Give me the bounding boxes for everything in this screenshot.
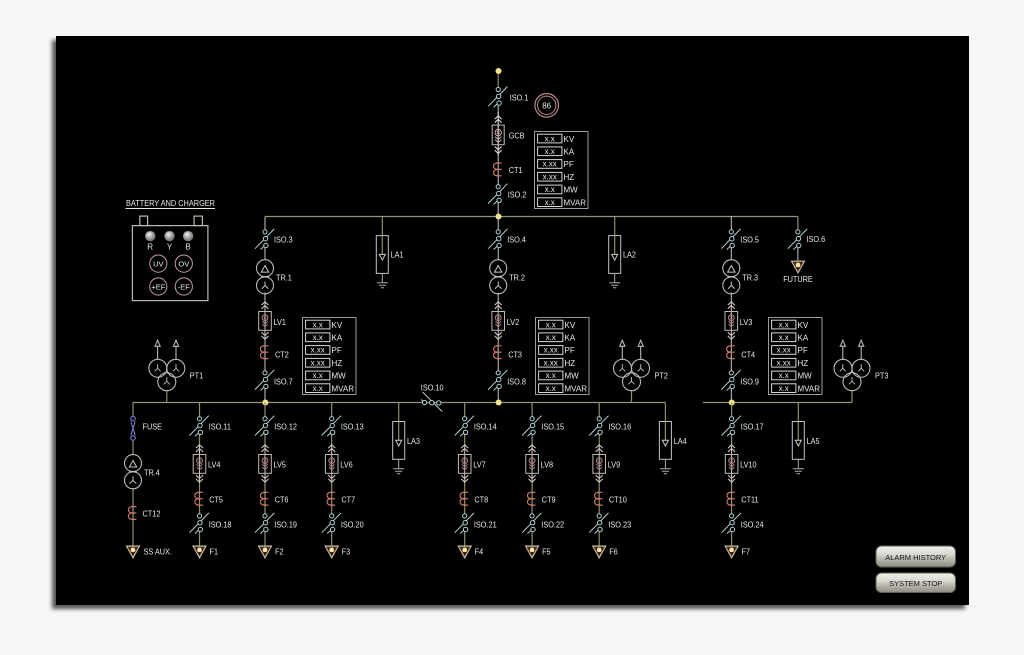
breaker GCB bbox=[492, 112, 504, 156]
feeder F1 bbox=[193, 546, 206, 558]
svg-text:CT4: CT4 bbox=[741, 350, 755, 360]
wire lower bus right segment bbox=[703, 402, 852, 404]
svg-text:LV6: LV6 bbox=[340, 460, 353, 470]
svg-text:ISO.20: ISO.20 bbox=[341, 519, 364, 529]
breaker LV4 bbox=[193, 445, 206, 483]
isolator ISO.9 bbox=[721, 370, 740, 391]
transformer TR.3 bbox=[723, 260, 740, 294]
svg-text:LA2: LA2 bbox=[623, 250, 636, 260]
svg-text:ISO.21: ISO.21 bbox=[474, 519, 497, 529]
feeder FUTURE bbox=[792, 261, 805, 273]
svg-text:LV8: LV8 bbox=[541, 460, 554, 470]
isolator ISO.10 bbox=[421, 392, 442, 412]
svg-text:F2: F2 bbox=[275, 547, 284, 557]
svg-text:ISO.17: ISO.17 bbox=[741, 422, 764, 432]
breaker LV3 bbox=[725, 302, 738, 340]
CT CT11 bbox=[727, 492, 735, 505]
feeder F7 bbox=[725, 546, 738, 558]
svg-text:ISO.16: ISO.16 bbox=[608, 422, 631, 432]
svg-text:LA3: LA3 bbox=[407, 436, 420, 446]
node ISO.8 bus junction bbox=[496, 400, 502, 406]
svg-text:LA5: LA5 bbox=[807, 436, 820, 446]
svg-text:+EF: +EF bbox=[151, 282, 165, 291]
svg-text:ISO.24: ISO.24 bbox=[741, 519, 764, 529]
feeder F5 bbox=[526, 546, 539, 558]
svg-text:LV2: LV2 bbox=[507, 317, 520, 327]
node ISO.9 bus junction bbox=[729, 400, 735, 406]
wire PT2 drop bbox=[631, 390, 633, 403]
meter panel TR.2 bbox=[536, 318, 590, 395]
isolator ISO.24 bbox=[722, 513, 741, 534]
svg-text:CT2: CT2 bbox=[275, 350, 289, 360]
svg-text:ISO.7: ISO.7 bbox=[274, 377, 293, 387]
svg-text:ISO.10: ISO.10 bbox=[421, 383, 444, 393]
CT CT5 bbox=[195, 492, 203, 505]
svg-text:R: R bbox=[147, 243, 153, 252]
isolator ISO.13 bbox=[322, 416, 341, 437]
svg-text:ISO.12: ISO.12 bbox=[274, 422, 297, 432]
transformer TR.2 bbox=[490, 260, 507, 294]
svg-text:ISO.3: ISO.3 bbox=[274, 235, 293, 245]
svg-text:FUTURE: FUTURE bbox=[783, 274, 813, 284]
svg-text:F4: F4 bbox=[475, 547, 484, 557]
wire ISO.3 column bbox=[264, 217, 266, 231]
svg-text:CT3: CT3 bbox=[508, 350, 522, 360]
svg-text:F6: F6 bbox=[609, 547, 618, 557]
svg-text:PT3: PT3 bbox=[875, 371, 889, 381]
wire PT3 drop bbox=[851, 390, 853, 403]
wire F7 column bbox=[731, 403, 733, 418]
svg-text:CT7: CT7 bbox=[341, 495, 355, 505]
wire F4 column bbox=[464, 403, 466, 418]
svg-text:Y: Y bbox=[167, 243, 173, 252]
isolator ISO.8 bbox=[488, 370, 507, 391]
breaker LV10 bbox=[725, 445, 738, 483]
svg-text:FUSE: FUSE bbox=[143, 422, 163, 432]
svg-text:ISO.8: ISO.8 bbox=[507, 377, 526, 387]
CT CT3 bbox=[494, 346, 502, 359]
PT PT3 bbox=[834, 340, 870, 390]
svg-text:LV1: LV1 bbox=[274, 317, 287, 327]
isolator ISO.14 bbox=[455, 416, 474, 437]
svg-text:GCB: GCB bbox=[509, 131, 525, 141]
isolator ISO.16 bbox=[589, 416, 608, 437]
svg-text:F7: F7 bbox=[742, 547, 751, 557]
svg-text:UV: UV bbox=[153, 259, 163, 268]
svg-text:CT6: CT6 bbox=[275, 495, 289, 505]
wire station aux column bbox=[132, 403, 134, 417]
breaker LV6 bbox=[325, 445, 338, 483]
svg-text:CT5: CT5 bbox=[209, 495, 223, 505]
svg-text:ISO.2: ISO.2 bbox=[508, 190, 527, 200]
transformer TR.4 bbox=[125, 455, 142, 489]
svg-text:CT12: CT12 bbox=[143, 509, 161, 519]
feeder F2 bbox=[259, 546, 272, 558]
wire lower bus left segment bbox=[133, 402, 666, 404]
CT CT1 bbox=[494, 163, 502, 176]
feeder SS AUX bbox=[127, 546, 140, 558]
isolator ISO.4 bbox=[488, 229, 507, 250]
svg-text:F1: F1 bbox=[210, 547, 219, 557]
breaker LV7 bbox=[458, 445, 471, 483]
svg-text:LV9: LV9 bbox=[608, 460, 621, 470]
wire F5 column bbox=[531, 403, 533, 418]
isolator ISO.17 bbox=[722, 416, 741, 437]
CT CT12 bbox=[128, 507, 136, 520]
wire upper bus bbox=[265, 216, 798, 218]
meter panel TR.3 bbox=[769, 318, 823, 395]
node incomer-bus junction bbox=[496, 214, 502, 220]
svg-text:F3: F3 bbox=[342, 547, 351, 557]
lightning arrester LA1 bbox=[376, 236, 388, 288]
CT CT10 bbox=[595, 492, 603, 505]
CT CT7 bbox=[327, 492, 335, 505]
isolator ISO.22 bbox=[522, 513, 541, 534]
fuse FUSE bbox=[131, 416, 136, 440]
relay 86 bbox=[535, 94, 559, 118]
svg-text:LV4: LV4 bbox=[208, 460, 221, 470]
svg-text:ISO.4: ISO.4 bbox=[507, 235, 526, 245]
isolator ISO.3 bbox=[255, 229, 274, 250]
isolator ISO.6 bbox=[788, 229, 807, 250]
lightning arrester LA2 bbox=[609, 236, 621, 288]
PT PT2 bbox=[614, 340, 650, 390]
svg-text:86: 86 bbox=[542, 101, 551, 110]
lightning arrester LA3 bbox=[393, 422, 405, 474]
isolator ISO.19 bbox=[255, 513, 274, 534]
lightning arrester LA5 bbox=[792, 422, 804, 474]
feeder F6 bbox=[593, 546, 606, 558]
wire ISO.5 column bbox=[730, 217, 732, 231]
button ALARM HISTORY bbox=[876, 546, 956, 567]
wire F2 column bbox=[264, 403, 266, 418]
svg-text:B: B bbox=[185, 243, 190, 252]
svg-text:TR.1: TR.1 bbox=[276, 273, 292, 283]
isolator ISO.11 bbox=[190, 416, 209, 437]
breaker LV9 bbox=[593, 445, 606, 483]
svg-text:LV3: LV3 bbox=[740, 317, 753, 327]
breaker LV8 bbox=[526, 445, 539, 483]
feeder F3 bbox=[325, 546, 338, 558]
svg-text:F5: F5 bbox=[542, 547, 551, 557]
breaker LV1 bbox=[259, 302, 272, 340]
wire LA4 drop bbox=[664, 403, 666, 423]
svg-text:ISO.11: ISO.11 bbox=[209, 422, 231, 432]
svg-text:ALARM HISTORY: ALARM HISTORY bbox=[885, 553, 946, 562]
svg-text:TR.4: TR.4 bbox=[144, 468, 160, 478]
svg-text:ISO.14: ISO.14 bbox=[474, 422, 497, 432]
svg-text:CT9: CT9 bbox=[542, 495, 556, 505]
isolator ISO.15 bbox=[522, 416, 541, 437]
isolator ISO.1 bbox=[488, 87, 507, 108]
battery and charger box bbox=[126, 199, 216, 301]
svg-text:ISO.23: ISO.23 bbox=[608, 519, 631, 529]
isolator ISO.21 bbox=[455, 513, 474, 534]
lightning arrester LA4 bbox=[659, 422, 671, 474]
svg-text:ISO.22: ISO.22 bbox=[541, 519, 564, 529]
svg-text:SS AUX.: SS AUX. bbox=[144, 547, 172, 557]
svg-text:ISO.13: ISO.13 bbox=[341, 422, 364, 432]
svg-text:CT10: CT10 bbox=[609, 495, 627, 505]
meter panel incomer bbox=[535, 132, 589, 209]
breaker LV2 bbox=[492, 302, 505, 340]
button SYSTEM STOP bbox=[876, 573, 956, 593]
CT CT4 bbox=[727, 346, 735, 359]
svg-text:ISO.1: ISO.1 bbox=[510, 93, 529, 103]
svg-text:ISO.18: ISO.18 bbox=[209, 519, 232, 529]
wire ISO.4 column bbox=[497, 217, 499, 231]
node ISO.7 bus junction bbox=[262, 400, 268, 406]
wire F1 column bbox=[199, 403, 201, 418]
svg-text:LV10: LV10 bbox=[740, 460, 757, 470]
svg-text:ISO.9: ISO.9 bbox=[740, 377, 759, 387]
svg-text:TR.3: TR.3 bbox=[742, 273, 758, 283]
isolator ISO.20 bbox=[322, 513, 341, 534]
svg-text:ISO.19: ISO.19 bbox=[274, 519, 297, 529]
node top source bbox=[496, 68, 502, 74]
meter panel TR.1 bbox=[303, 318, 357, 395]
svg-text:ISO.15: ISO.15 bbox=[541, 422, 564, 432]
svg-text:-EF: -EF bbox=[178, 282, 191, 291]
wire incomer drop bbox=[497, 71, 499, 87]
svg-text:LA1: LA1 bbox=[391, 250, 404, 260]
CT CT9 bbox=[527, 492, 535, 505]
wire LA3 drop bbox=[398, 403, 400, 423]
isolator ISO.5 bbox=[721, 229, 740, 250]
svg-text:ISO.5: ISO.5 bbox=[740, 235, 759, 245]
wire LA2 drop bbox=[614, 217, 616, 237]
svg-text:OV: OV bbox=[178, 259, 189, 268]
svg-text:LV5: LV5 bbox=[274, 460, 287, 470]
svg-text:BATTERY AND CHARGER: BATTERY AND CHARGER bbox=[126, 199, 215, 208]
CT CT6 bbox=[260, 492, 268, 505]
CT CT8 bbox=[460, 492, 468, 505]
wire F3 column bbox=[331, 403, 333, 418]
transformer TR.1 bbox=[257, 260, 274, 294]
isolator ISO.18 bbox=[190, 513, 209, 534]
svg-text:LV7: LV7 bbox=[473, 460, 486, 470]
svg-text:ISO.6: ISO.6 bbox=[807, 234, 826, 244]
svg-text:SYSTEM STOP: SYSTEM STOP bbox=[889, 579, 942, 588]
wire PT1 drop bbox=[166, 390, 168, 403]
isolator ISO.7 bbox=[255, 370, 274, 391]
svg-text:PT2: PT2 bbox=[655, 371, 669, 381]
feeder F4 bbox=[458, 546, 471, 558]
svg-text:TR.2: TR.2 bbox=[509, 273, 525, 283]
svg-text:PT1: PT1 bbox=[190, 371, 204, 381]
isolator ISO.2 bbox=[488, 184, 507, 205]
isolator ISO.23 bbox=[589, 513, 608, 534]
breaker LV5 bbox=[259, 445, 272, 483]
CT CT2 bbox=[260, 346, 268, 359]
svg-text:CT8: CT8 bbox=[474, 495, 488, 505]
svg-text:CT11: CT11 bbox=[741, 495, 758, 505]
wire ISO.6 drop bbox=[797, 217, 799, 231]
PT PT1 bbox=[149, 340, 185, 390]
svg-text:CT1: CT1 bbox=[509, 165, 523, 175]
wire F6 column bbox=[598, 403, 600, 418]
wire LA1 drop bbox=[381, 217, 383, 237]
wire LA5 drop bbox=[797, 403, 799, 423]
svg-text:LA4: LA4 bbox=[674, 436, 687, 446]
isolator ISO.12 bbox=[255, 416, 274, 437]
